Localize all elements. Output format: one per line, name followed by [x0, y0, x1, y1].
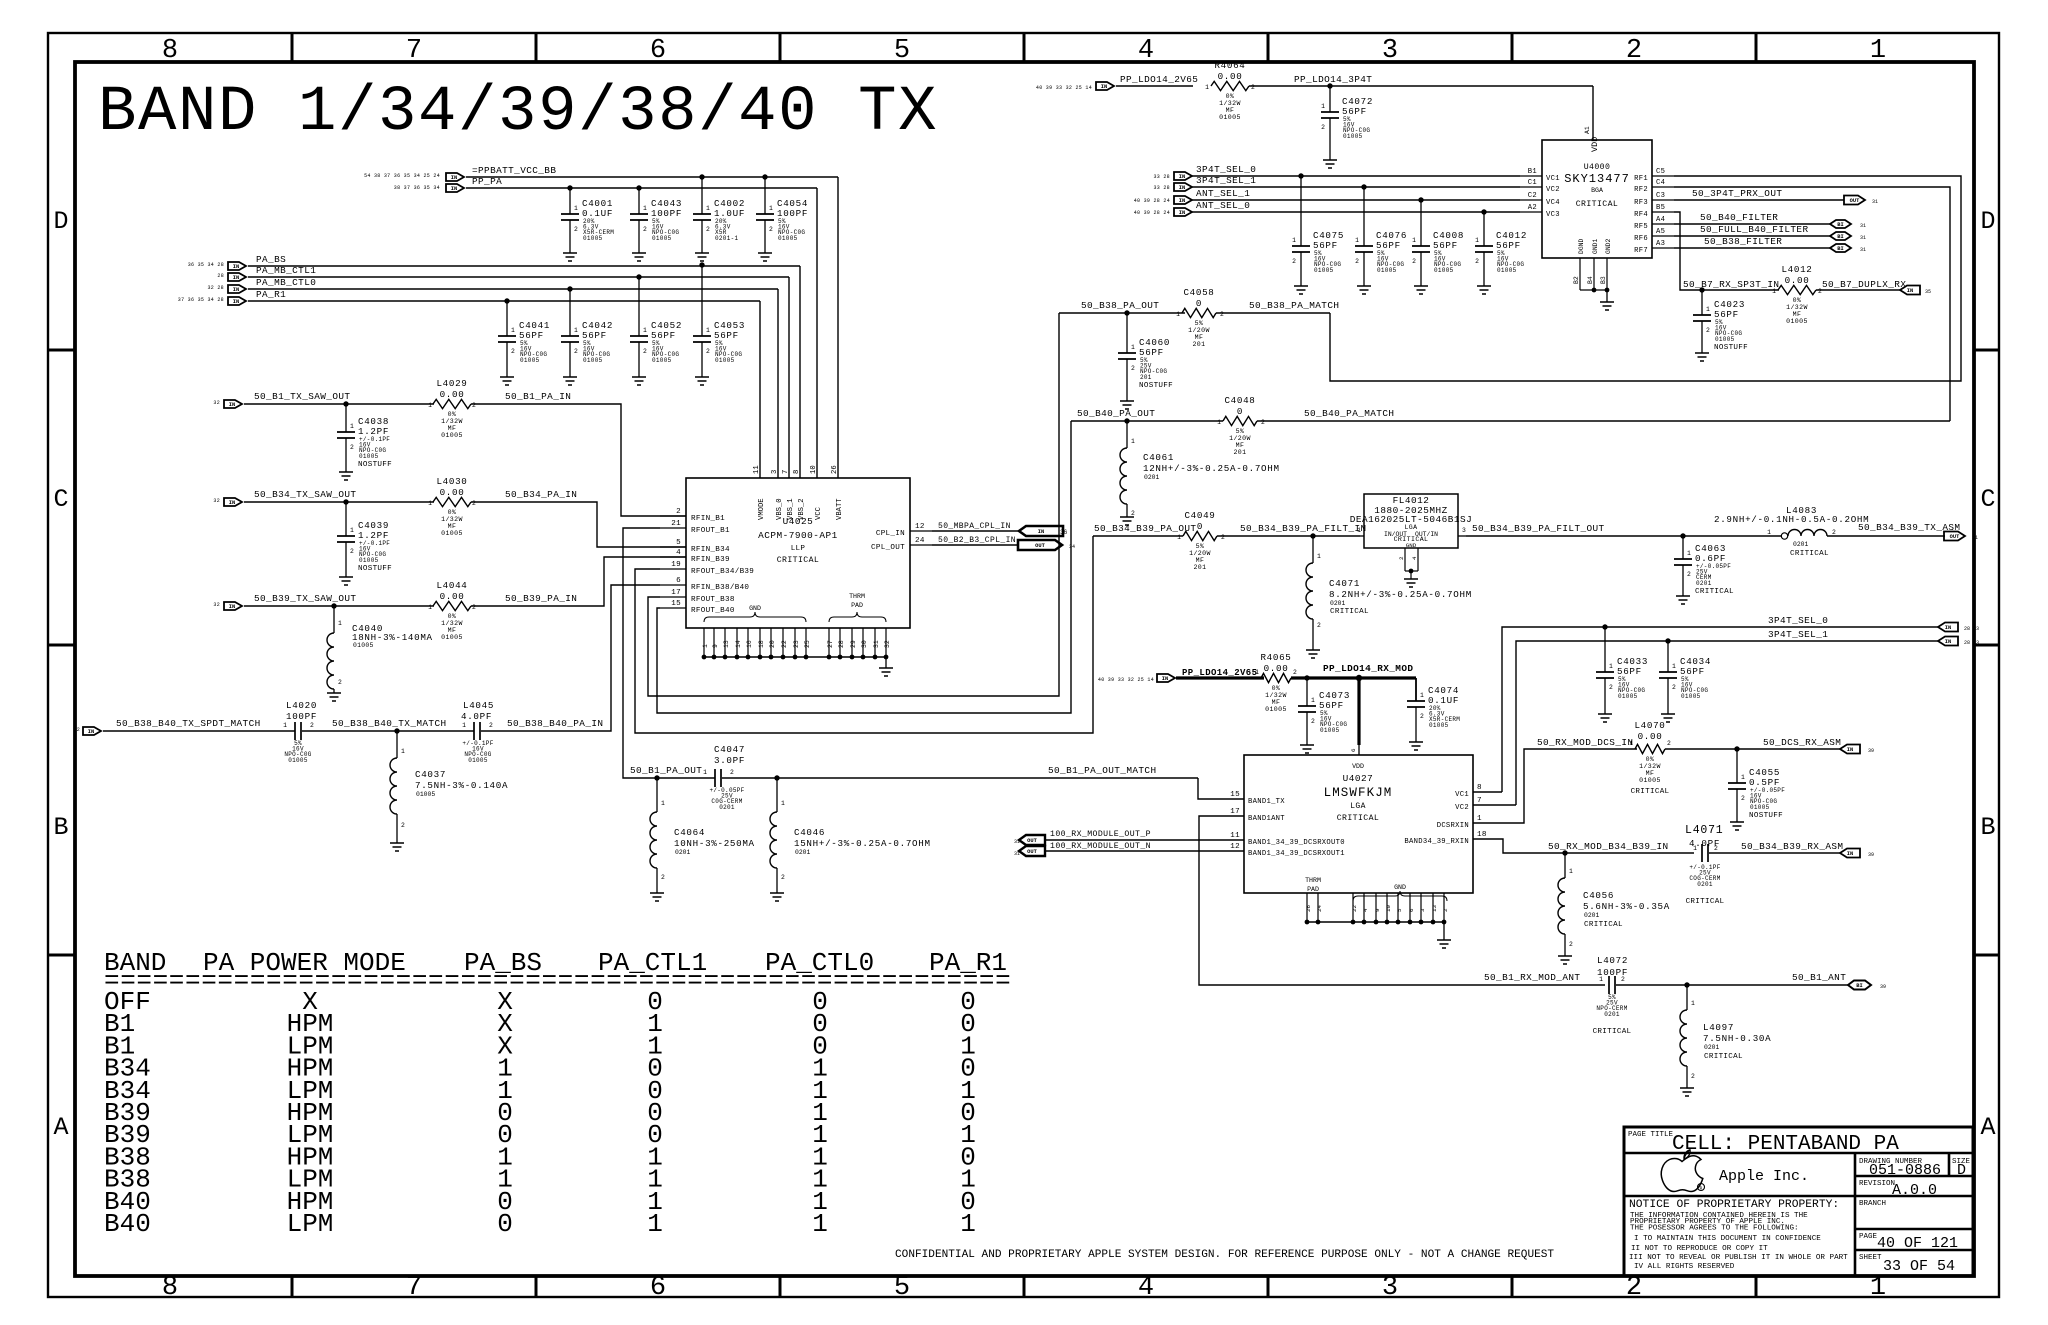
svg-text:1: 1 — [574, 205, 578, 212]
U4025 bottom ground bus — [704, 656, 886, 658]
connector IN 3P4T_SEL_0 — [1174, 172, 1192, 180]
resistor R4064 — [1211, 81, 1249, 90]
svg-text:3P4T_SEL_0: 3P4T_SEL_0 — [1768, 615, 1828, 626]
svg-text:PAD: PAD — [1307, 886, 1319, 893]
wire PA_BS rail — [248, 265, 800, 267]
svg-text:0: 0 — [1196, 298, 1202, 309]
wire 50_B34_B39_RX_ASM — [1709, 852, 1841, 854]
wire PP_PA rail — [466, 187, 817, 189]
svg-text:50_B1_TX_SAW_OUT: 50_B1_TX_SAW_OUT — [254, 391, 350, 402]
svg-text:8: 8 — [793, 470, 801, 474]
svg-text:2: 2 — [1311, 718, 1315, 725]
svg-text:1: 1 — [1311, 697, 1315, 704]
svg-text:35: 35 — [1925, 289, 1931, 295]
connector IN ANT_SEL_0 — [1174, 208, 1192, 216]
wire U4027 DCSRXIN to DCS row — [1473, 749, 1637, 823]
svg-text:50_B34_B39_PA_FILT_OUT: 50_B34_B39_PA_FILT_OUT — [1472, 523, 1605, 534]
U4000 right pins — [1652, 175, 1674, 177]
svg-text:1: 1 — [1292, 237, 1296, 244]
wire 50_B38_B40_PA_IN to U4025 RFIN_B38/B40 — [481, 585, 660, 731]
svg-text:RF5: RF5 — [1634, 223, 1648, 231]
IC U4025 ACPM-7900-AP1 body — [686, 478, 910, 628]
svg-text:23: 23 — [793, 640, 800, 648]
svg-text:22: 22 — [1351, 905, 1358, 912]
svg-text:50_B2_B3_CPL_IN: 50_B2_B3_CPL_IN — [938, 536, 1016, 545]
svg-text:RFOUT_B38: RFOUT_B38 — [691, 596, 735, 604]
svg-text:3: 3 — [1382, 36, 1398, 66]
svg-text:IN: IN — [1945, 625, 1951, 631]
svg-text:15NH+/-3%-0.25A-0.7OHM: 15NH+/-3%-0.25A-0.7OHM — [794, 838, 931, 849]
svg-text:0.00: 0.00 — [440, 389, 465, 400]
svg-text:II NOT TO REPRODUCE OR COPY IT: II NOT TO REPRODUCE OR COPY IT — [1631, 1245, 1768, 1253]
svg-text:16: 16 — [746, 640, 753, 648]
net label 50_MBPA_CPL_IN — [932, 530, 1019, 532]
wire RFOUT_B40 to B40 PA out — [657, 421, 1071, 713]
svg-text:RF1: RF1 — [1634, 175, 1648, 183]
svg-text:RF2: RF2 — [1634, 186, 1648, 194]
svg-text:01005: 01005 — [441, 530, 463, 537]
svg-text:3P4T_SEL_1: 3P4T_SEL_1 — [1768, 629, 1828, 640]
wire stub C4041 — [506, 301, 508, 336]
svg-text:11: 11 — [1230, 832, 1240, 840]
junction C4075 — [1298, 173, 1303, 178]
svg-text:RFIN_B39: RFIN_B39 — [691, 556, 730, 564]
svg-text:32 28: 32 28 — [207, 285, 224, 291]
wire ANT_SEL_0 — [1192, 211, 1520, 213]
connector IN 3P4T_SEL_1 — [1174, 183, 1192, 191]
title block page cell — [1855, 1249, 1973, 1252]
net label 50_B34_B39_PA_FILT_IN — [1217, 535, 1360, 537]
capacitor C4075 — [1300, 176, 1302, 246]
svg-text:C4: C4 — [1656, 179, 1665, 187]
svg-text:24: 24 — [915, 537, 925, 545]
svg-text:2: 2 — [1475, 258, 1479, 265]
svg-text:1: 1 — [706, 205, 710, 212]
title block revision cell — [1855, 1195, 1973, 1198]
svg-text:2: 2 — [643, 348, 647, 355]
svg-text:R4064: R4064 — [1214, 60, 1245, 71]
svg-text:2: 2 — [1321, 124, 1325, 131]
svg-text:C1: C1 — [1528, 179, 1537, 187]
svg-text:NOSTUFF: NOSTUFF — [358, 565, 392, 573]
svg-text:01005: 01005 — [359, 453, 379, 460]
svg-text:PA_R1: PA_R1 — [256, 289, 286, 300]
capacitor C4063 — [1682, 536, 1684, 559]
wire PA_MB_CTL1 rail — [248, 276, 789, 278]
svg-text:32: 32 — [213, 498, 220, 504]
wire PP_LDO14_2V65 to R4064 — [1116, 85, 1193, 87]
junction on rail at C4053 — [699, 262, 704, 267]
svg-text:1: 1 — [1357, 527, 1361, 534]
svg-text:NOTICE OF PROPRIETARY PROPERTY: NOTICE OF PROPRIETARY PROPERTY: — [1629, 1199, 1839, 1211]
svg-text:IN: IN — [1907, 288, 1913, 294]
svg-text:PP_LDO14_2V65: PP_LDO14_2V65 — [1120, 74, 1198, 85]
svg-text:BAND1_34_39_DCSRXOUT0: BAND1_34_39_DCSRXOUT0 — [1248, 839, 1345, 847]
svg-text:5: 5 — [894, 1273, 910, 1303]
svg-text:28: 28 — [838, 640, 845, 648]
capacitor L4020 — [294, 722, 296, 740]
svg-text:33 28: 33 28 — [1153, 174, 1170, 180]
svg-text:CRITICAL: CRITICAL — [1576, 200, 1619, 209]
wire stub C4054 — [764, 177, 766, 214]
svg-text:IN: IN — [229, 402, 235, 408]
connector IN PA_MB_CTL1 — [228, 273, 246, 281]
svg-text:50_B7_RX_SP3T_IN: 50_B7_RX_SP3T_IN — [1683, 279, 1779, 290]
capacitor L4045 — [473, 722, 475, 740]
wire 50_B34_B39_PA_OUT — [1093, 535, 1183, 537]
svg-text:0201: 0201 — [795, 849, 811, 856]
svg-text:1: 1 — [1569, 868, 1573, 875]
capacitor C4002 — [693, 213, 711, 215]
svg-text:OUT: OUT — [1027, 849, 1037, 855]
svg-text:CPL_IN: CPL_IN — [876, 530, 905, 538]
svg-text:50_B34_TX_SAW_OUT: 50_B34_TX_SAW_OUT — [254, 489, 356, 500]
svg-text:LPM: LPM — [287, 1209, 334, 1239]
junction C4034 — [1665, 638, 1670, 643]
svg-text:31: 31 — [1872, 199, 1878, 205]
svg-text:2: 2 — [574, 348, 578, 355]
svg-text:VMODE: VMODE — [758, 498, 766, 520]
svg-text:50_B39_PA_IN: 50_B39_PA_IN — [505, 593, 577, 604]
svg-text:2: 2 — [350, 444, 354, 451]
junction on rail at C4043 — [636, 185, 641, 190]
svg-text:1: 1 — [1317, 553, 1321, 560]
svg-text:BAND34_39_RXIN: BAND34_39_RXIN — [1404, 838, 1469, 846]
wire stub C4002 — [701, 177, 703, 214]
svg-text:B5: B5 — [1656, 204, 1665, 212]
wire 50_DCS_RX_ASM — [1665, 748, 1841, 750]
svg-text:1: 1 — [1687, 550, 1691, 557]
svg-text:==============================: ========================================… — [104, 966, 1011, 996]
svg-text:Apple Inc.: Apple Inc. — [1719, 1168, 1809, 1185]
wire 50_B7_RX_SP3T_IN — [1702, 289, 1779, 291]
capacitor C4052 — [630, 335, 648, 337]
svg-text:GND: GND — [1394, 884, 1406, 891]
svg-text:0.00: 0.00 — [440, 591, 465, 602]
svg-text:IN: IN — [1945, 639, 1951, 645]
svg-text:2: 2 — [1398, 556, 1405, 560]
svg-text:12: 12 — [915, 523, 925, 531]
svg-text:18: 18 — [1477, 831, 1487, 839]
svg-text:PA_BS: PA_BS — [256, 254, 286, 265]
capacitor C4055 (NOSTUFF) — [1736, 749, 1738, 783]
svg-text:7: 7 — [406, 1273, 422, 1303]
inductor C4037 — [396, 731, 398, 758]
svg-text:2: 2 — [706, 348, 710, 355]
svg-text:28 33: 28 33 — [1964, 640, 1979, 646]
svg-text:01005: 01005 — [1681, 693, 1701, 700]
svg-text:01005: 01005 — [1786, 318, 1808, 325]
svg-text:RF3: RF3 — [1634, 199, 1648, 207]
svg-text:0.00: 0.00 — [1638, 731, 1663, 742]
connector IN 50_B1_TX_SAW_OUT — [224, 400, 242, 408]
svg-text:B4: B4 — [1587, 276, 1594, 284]
svg-text:1: 1 — [1706, 306, 1710, 313]
svg-text:1/32W: 1/32W — [1219, 100, 1241, 107]
svg-text:3: 3 — [1419, 908, 1426, 912]
resistor L4044 — [433, 601, 471, 610]
svg-text:01005: 01005 — [416, 791, 435, 798]
wire RFOUT_B38 to B38 PA out — [648, 313, 1059, 696]
svg-text:051-0886: 051-0886 — [1869, 1162, 1941, 1179]
capacitor C4053 — [693, 335, 711, 337]
svg-text:50_B7_DUPLX_RX: 50_B7_DUPLX_RX — [1822, 279, 1906, 290]
svg-text:CPL_OUT: CPL_OUT — [871, 544, 905, 552]
svg-text:1: 1 — [703, 769, 707, 776]
svg-text:39: 39 — [1880, 984, 1886, 990]
svg-text:C4064: C4064 — [674, 827, 705, 838]
svg-text:PA_MB_CTL1: PA_MB_CTL1 — [256, 265, 316, 276]
svg-text:A2: A2 — [1528, 204, 1537, 212]
svg-text:VC1: VC1 — [1546, 175, 1560, 183]
svg-text:201: 201 — [1193, 564, 1206, 571]
svg-text:1: 1 — [350, 527, 354, 534]
svg-text:IN: IN — [1179, 185, 1185, 191]
svg-text:RFIN_B38/B40: RFIN_B38/B40 — [691, 584, 749, 592]
svg-text:26: 26 — [1305, 905, 1312, 912]
wire 50_B34_TX_SAW_OUT — [244, 501, 434, 503]
svg-text:40 39 33 32 25 14: 40 39 33 32 25 14 — [1098, 677, 1154, 683]
svg-text:L4020: L4020 — [286, 700, 317, 711]
svg-text:01005: 01005 — [583, 235, 603, 242]
svg-text:1: 1 — [1131, 344, 1135, 351]
svg-text:0.00: 0.00 — [1785, 275, 1810, 286]
svg-text:B: B — [1980, 813, 1995, 842]
svg-text:1: 1 — [1870, 36, 1886, 66]
svg-text:D: D — [53, 207, 68, 236]
svg-text:50_3P4T_PRX_OUT: 50_3P4T_PRX_OUT — [1692, 188, 1782, 199]
svg-text:1: 1 — [1691, 1000, 1695, 1007]
svg-text:1: 1 — [1176, 311, 1180, 318]
svg-text:2: 2 — [676, 508, 681, 516]
svg-text:B40: B40 — [104, 1209, 151, 1239]
svg-text:MF: MF — [1646, 770, 1655, 777]
filter FL4012 body — [1364, 494, 1458, 548]
svg-text:21: 21 — [671, 520, 681, 528]
ground under C4064 — [650, 892, 664, 894]
wire RFOUT_B34/B39 to B34_B39 PA out — [635, 536, 1093, 733]
connector IN PA_BS — [228, 262, 246, 270]
svg-text:2: 2 — [1609, 684, 1613, 691]
svg-text:50_B38_FILTER: 50_B38_FILTER — [1704, 236, 1782, 247]
svg-text:MF: MF — [1793, 311, 1802, 318]
svg-text:VBATT: VBATT — [836, 498, 844, 520]
svg-text:34: 34 — [1069, 544, 1075, 550]
connector IN 3P4T_SEL_1 right — [1938, 637, 1958, 646]
capacitor C4001 — [561, 213, 579, 215]
svg-text:6: 6 — [650, 36, 666, 66]
svg-text:1: 1 — [1177, 534, 1181, 541]
svg-text:BRANCH: BRANCH — [1859, 1200, 1886, 1208]
svg-text:CRITICAL: CRITICAL — [1593, 1028, 1632, 1036]
svg-text:201: 201 — [1140, 374, 1152, 381]
svg-text:1: 1 — [781, 800, 785, 807]
svg-text:50_B34_PA_IN: 50_B34_PA_IN — [505, 489, 577, 500]
svg-text:C3: C3 — [1656, 192, 1665, 200]
connector IN PPBATT_VCC_BB — [446, 173, 464, 181]
svg-text:1: 1 — [1767, 529, 1771, 536]
wire 50_B1_PA_IN to U4025 RFIN_B1 — [471, 404, 686, 516]
svg-text:33 OF 54: 33 OF 54 — [1883, 1258, 1955, 1275]
svg-text:01005: 01005 — [288, 757, 308, 764]
svg-text:IN: IN — [88, 729, 94, 735]
svg-text:CRITICAL: CRITICAL — [1686, 898, 1725, 906]
svg-text:13: 13 — [1431, 905, 1438, 912]
U4025 THRM PAD bracket — [829, 612, 886, 622]
svg-text:MF: MF — [448, 523, 457, 530]
svg-text:VC3: VC3 — [1546, 211, 1560, 219]
wire RFOUT_B1 to 50_B1_PA_OUT — [623, 528, 660, 778]
junction C4046 — [774, 775, 779, 780]
svg-text:IN: IN — [233, 264, 239, 270]
svg-text:OUT: OUT — [1950, 534, 1960, 540]
svg-text:1: 1 — [1629, 740, 1633, 747]
junction C4039 — [343, 499, 348, 504]
svg-text:THRM: THRM — [849, 593, 865, 600]
svg-text:RFOUT_B1: RFOUT_B1 — [691, 527, 730, 535]
wire PP_LDO14_RX_MOD bold — [1291, 676, 1416, 679]
junction C4037 — [394, 728, 399, 733]
svg-text:3P4T_SEL_0: 3P4T_SEL_0 — [1196, 164, 1256, 175]
junction C4060 — [1124, 310, 1129, 315]
svg-text:19: 19 — [671, 561, 681, 569]
svg-text:01005: 01005 — [359, 557, 379, 564]
capacitor C4023 (NOSTUFF) — [1701, 290, 1703, 315]
svg-text:3: 3 — [1462, 527, 1466, 534]
connector IN 50_B34_TX_SAW_OUT — [224, 498, 242, 506]
svg-text:III NOT TO REVEAL OR PUBLISH I: III NOT TO REVEAL OR PUBLISH IT IN WHOLE… — [1629, 1254, 1848, 1262]
svg-text:6: 6 — [1350, 748, 1357, 752]
svg-text:ANT_SEL_0: ANT_SEL_0 — [1196, 200, 1250, 211]
svg-text:31: 31 — [873, 640, 880, 648]
svg-text:R: R — [1700, 1186, 1703, 1192]
junction C4038 — [343, 401, 348, 406]
svg-text:01005: 01005 — [1715, 336, 1735, 343]
svg-text:01005: 01005 — [520, 357, 540, 364]
svg-text:31: 31 — [1860, 235, 1866, 241]
svg-text:1: 1 — [338, 620, 342, 627]
svg-text:NOSTUFF: NOSTUFF — [358, 461, 392, 469]
connector OUT 50_3P4T_PRX_OUT — [1844, 196, 1865, 205]
svg-text:4: 4 — [676, 549, 681, 557]
svg-text:40 OF 121: 40 OF 121 — [1877, 1235, 1958, 1252]
junction C4040 — [331, 603, 336, 608]
connector OUT 100_RX_MODULE_OUT_P — [1019, 835, 1045, 845]
svg-text:1/32W: 1/32W — [1265, 692, 1287, 699]
capacitor C4060 (NOSTUFF) — [1126, 313, 1128, 353]
svg-text:C4046: C4046 — [794, 827, 825, 838]
svg-text:0%: 0% — [1793, 297, 1802, 304]
svg-text:L4070: L4070 — [1634, 720, 1665, 731]
svg-text:3: 3 — [1382, 1273, 1398, 1303]
svg-text:PAD: PAD — [851, 602, 863, 609]
capacitor C4073 — [1306, 678, 1308, 706]
svg-text:IN: IN — [229, 604, 235, 610]
svg-text:MF: MF — [1195, 334, 1204, 341]
svg-text:6: 6 — [1408, 908, 1415, 912]
svg-text:50_MBPA_CPL_IN: 50_MBPA_CPL_IN — [938, 522, 1011, 531]
svg-text:01005: 01005 — [583, 357, 603, 364]
svg-text:2: 2 — [310, 722, 314, 729]
svg-text:40 39 33 32 25 14: 40 39 33 32 25 14 — [1036, 85, 1092, 91]
svg-text:01005: 01005 — [652, 357, 672, 364]
svg-text:CELL: PENTABAND PA: CELL: PENTABAND PA — [1672, 1133, 1899, 1156]
svg-text:CRITICAL: CRITICAL — [1790, 550, 1829, 558]
border column dividers bottom — [291, 1276, 294, 1297]
svg-text:2: 2 — [489, 722, 493, 729]
svg-text:GND: GND — [749, 605, 761, 612]
wire 50_B38_B40_TX_MATCH — [302, 730, 474, 732]
svg-text:C4056: C4056 — [1583, 890, 1614, 901]
capacitor C4047 — [714, 769, 716, 787]
junction C4072 — [1327, 83, 1332, 88]
svg-text:50_B38_B40_PA_IN: 50_B38_B40_PA_IN — [507, 718, 603, 729]
svg-text:1/32W: 1/32W — [441, 620, 463, 627]
svg-text:C4071: C4071 — [1329, 578, 1360, 589]
inductor C4056 — [1564, 853, 1566, 878]
svg-text:L4029: L4029 — [436, 378, 467, 389]
svg-text:2: 2 — [1687, 571, 1691, 578]
svg-text:50_RX_MOD_DCS_IN: 50_RX_MOD_DCS_IN — [1537, 737, 1633, 748]
svg-text:MF: MF — [448, 425, 457, 432]
svg-text:2: 2 — [1221, 534, 1225, 541]
svg-text:CRITICAL: CRITICAL — [777, 556, 820, 565]
svg-text:2: 2 — [472, 604, 476, 611]
svg-text:BI: BI — [1837, 222, 1843, 228]
svg-text:RF6: RF6 — [1634, 235, 1648, 243]
svg-text:7: 7 — [406, 36, 422, 66]
resistor L4029 — [433, 399, 471, 408]
svg-text:RFIN_B1: RFIN_B1 — [691, 515, 725, 523]
svg-text:PP_LDO14_3P4T: PP_LDO14_3P4T — [1294, 74, 1372, 85]
svg-text:IN: IN — [451, 186, 457, 192]
svg-text:B2: B2 — [1573, 276, 1580, 284]
svg-text:1: 1 — [511, 327, 515, 334]
svg-text:50_FULL_B40_FILTER: 50_FULL_B40_FILTER — [1700, 224, 1808, 235]
wire 3P4T_SEL_1 — [1192, 186, 1520, 188]
svg-text:20: 20 — [769, 640, 776, 648]
svg-text:CRITICAL: CRITICAL — [1330, 608, 1369, 616]
U4027 bottom pins — [1306, 893, 1308, 922]
svg-text:5%: 5% — [1195, 320, 1204, 327]
svg-text:01005: 01005 — [1343, 133, 1363, 140]
svg-text:2: 2 — [1292, 258, 1296, 265]
svg-text:1: 1 — [769, 205, 773, 212]
svg-text:1: 1 — [350, 423, 354, 430]
svg-text:2: 2 — [1621, 976, 1625, 983]
svg-text:OUT: OUT — [1027, 838, 1037, 844]
connector BI 50_FULL_B40_FILTER — [1830, 232, 1851, 240]
connector IN PP_PA — [446, 184, 464, 192]
svg-text:39: 39 — [1868, 852, 1874, 858]
border column dividers top — [291, 33, 294, 62]
wire ANT_SEL_1 — [1192, 199, 1520, 201]
svg-text:5: 5 — [894, 36, 910, 66]
svg-text:0.00: 0.00 — [1218, 71, 1243, 82]
wire U4027 BAND34_39_RXIN to RX row — [1473, 839, 1694, 853]
svg-text:17: 17 — [1230, 808, 1240, 816]
capacitor C4033 — [1604, 627, 1606, 672]
svg-text:MF: MF — [1236, 442, 1245, 449]
svg-text:BAND1_TX: BAND1_TX — [1248, 798, 1285, 806]
junction L4097 — [1684, 982, 1689, 987]
svg-text:1: 1 — [428, 500, 432, 507]
svg-text:VDD: VDD — [1590, 137, 1600, 152]
svg-text:50_DCS_RX_ASM: 50_DCS_RX_ASM — [1763, 737, 1841, 748]
svg-text:30: 30 — [861, 640, 868, 648]
svg-text:15: 15 — [1230, 791, 1240, 799]
svg-text:VBS_0: VBS_0 — [776, 498, 784, 520]
